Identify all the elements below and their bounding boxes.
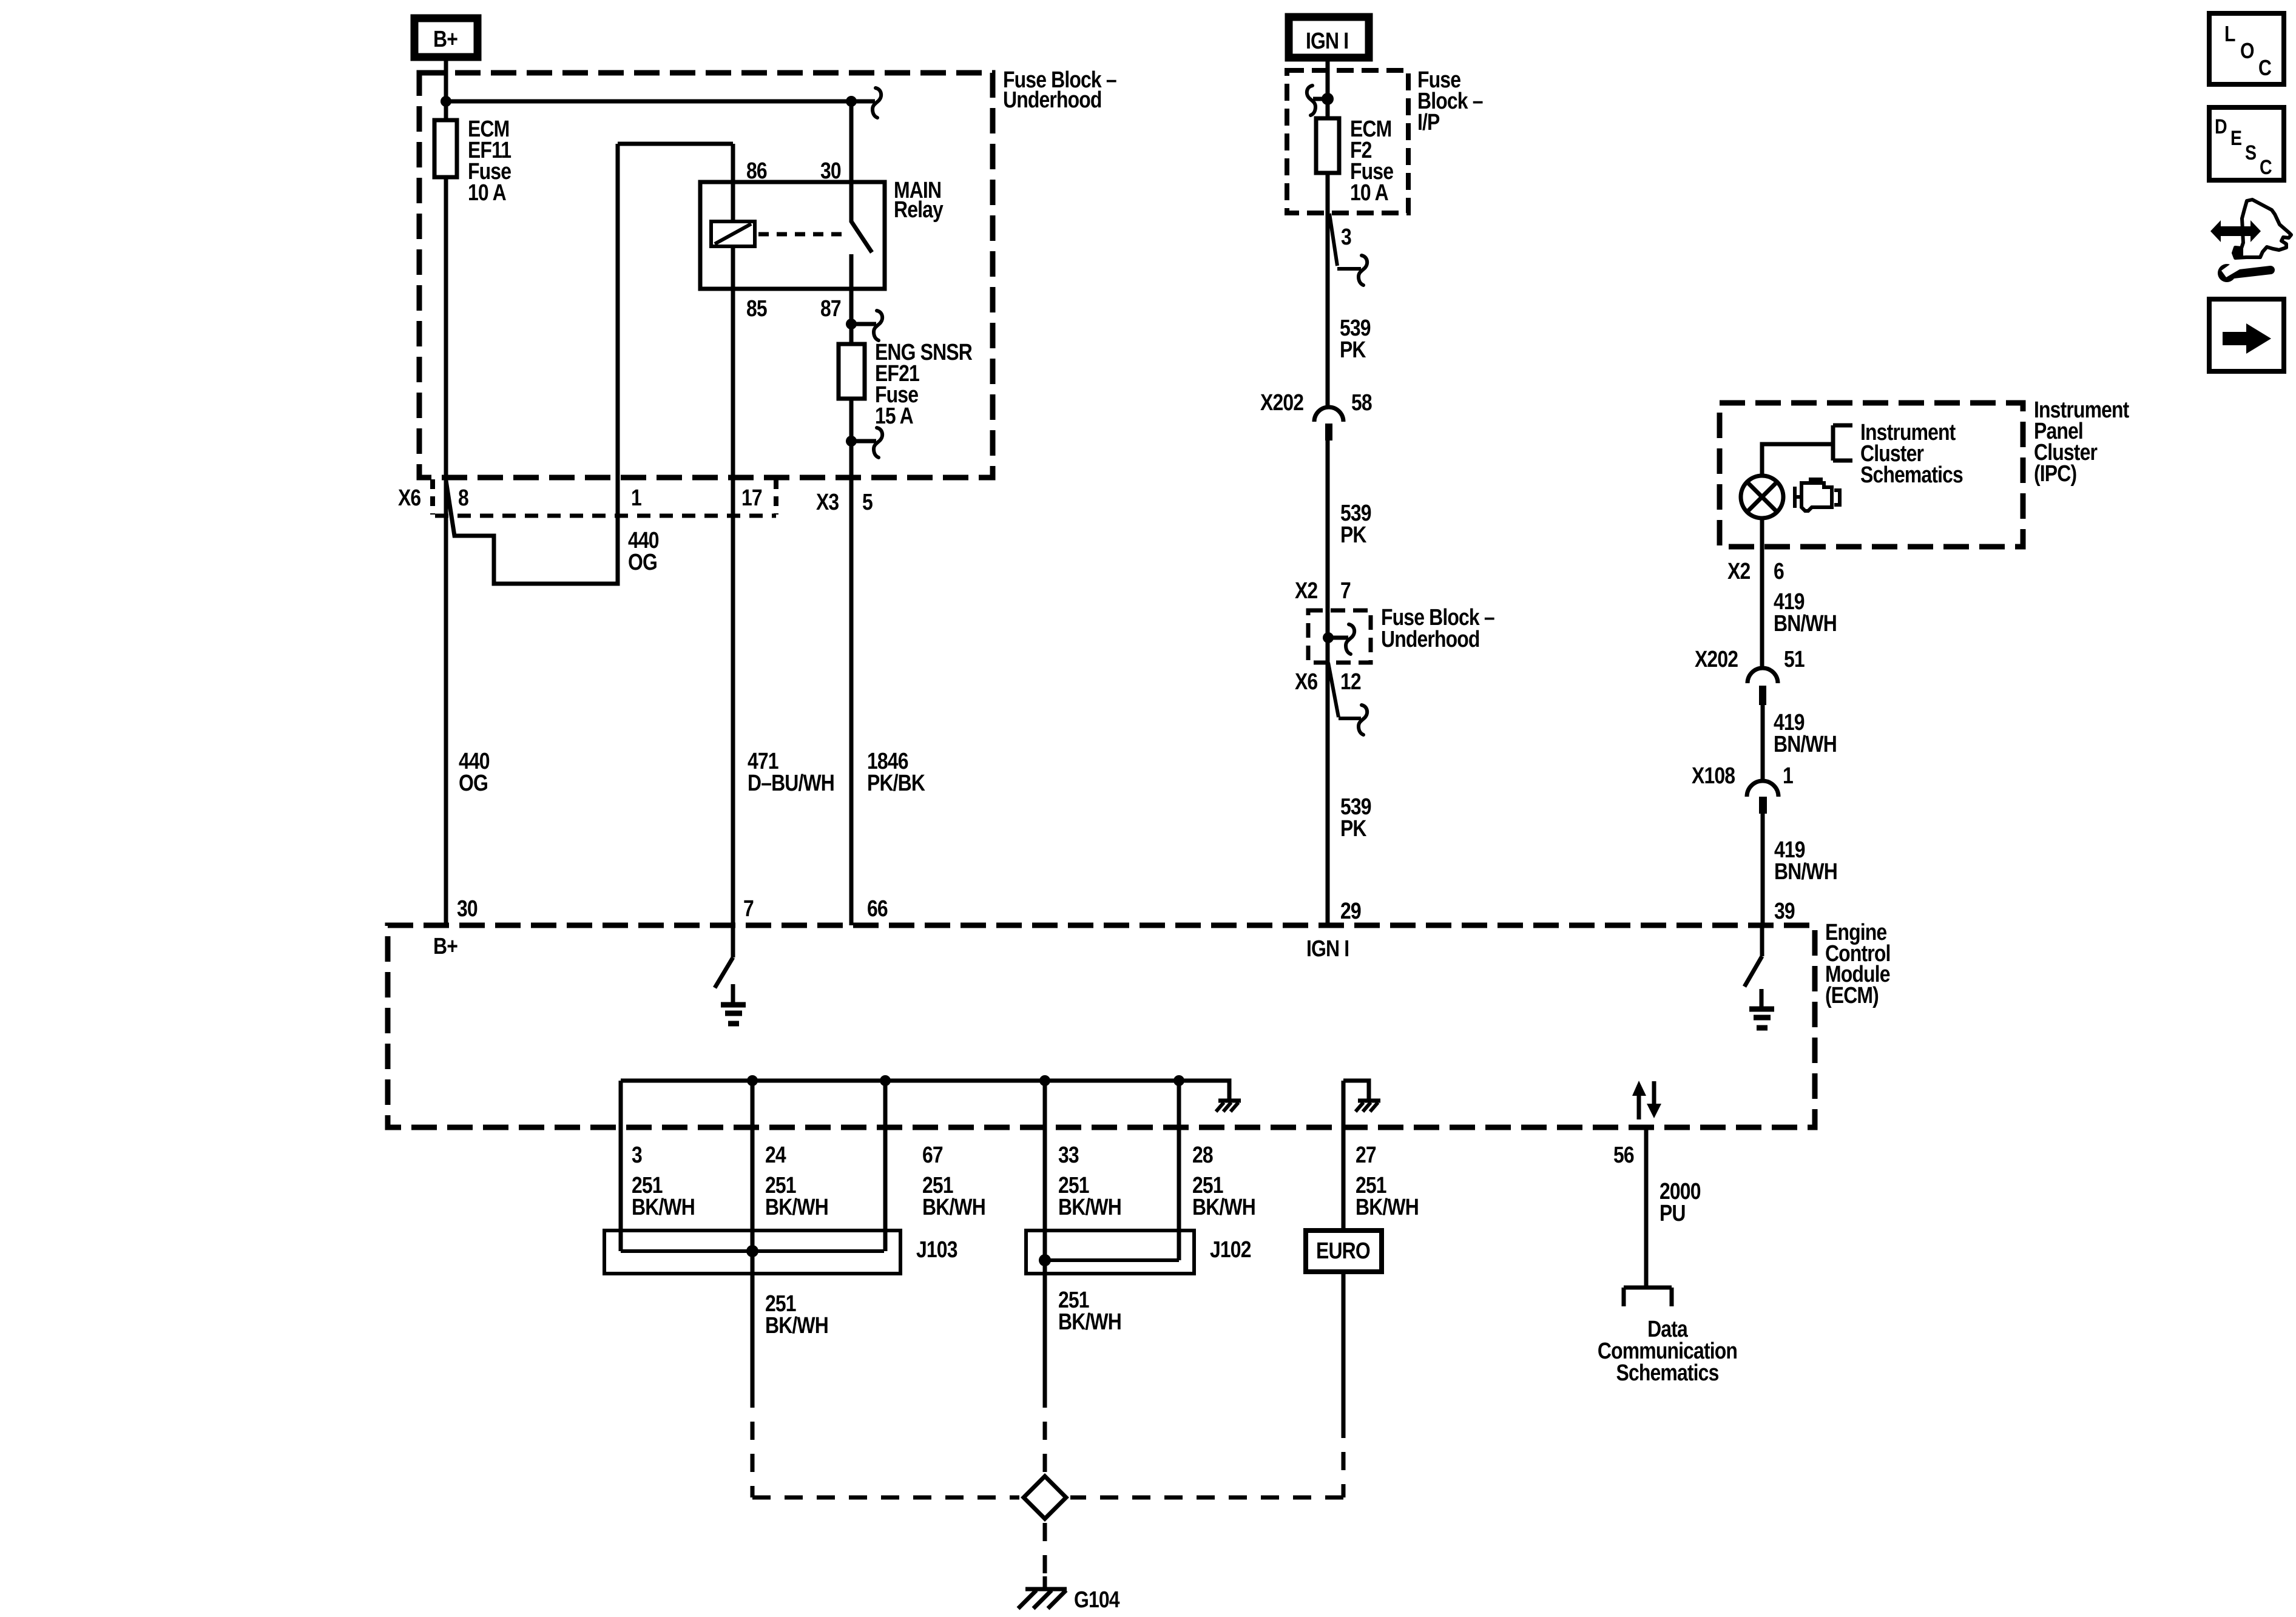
svg-text:10 A: 10 A bbox=[1350, 180, 1388, 205]
svg-text:IGN I: IGN I bbox=[1306, 936, 1349, 961]
svg-text:86: 86 bbox=[746, 158, 767, 183]
svg-text:X202: X202 bbox=[1260, 390, 1304, 415]
svg-text:X202: X202 bbox=[1695, 646, 1738, 672]
svg-text:Schematics: Schematics bbox=[1860, 462, 1963, 487]
svg-text:OG: OG bbox=[628, 549, 657, 575]
svg-text:12: 12 bbox=[1340, 669, 1361, 694]
svg-text:C: C bbox=[2258, 56, 2272, 81]
svg-text:B+: B+ bbox=[433, 933, 458, 959]
svg-text:X3: X3 bbox=[816, 489, 839, 515]
svg-text:X2: X2 bbox=[1295, 578, 1318, 603]
svg-text:PK/BK: PK/BK bbox=[867, 770, 925, 795]
svg-text:51: 51 bbox=[1784, 646, 1805, 672]
svg-text:E: E bbox=[2230, 127, 2241, 150]
svg-text:24: 24 bbox=[765, 1142, 786, 1167]
svg-text:X2: X2 bbox=[1727, 558, 1751, 584]
svg-text:87: 87 bbox=[820, 295, 841, 321]
svg-text:BK/WH: BK/WH bbox=[765, 1194, 828, 1220]
svg-text:BK/WH: BK/WH bbox=[1058, 1194, 1121, 1220]
svg-text:BN/WH: BN/WH bbox=[1774, 731, 1837, 757]
svg-text:Underhood: Underhood bbox=[1003, 87, 1102, 112]
svg-text:X6: X6 bbox=[1295, 669, 1318, 694]
svg-text:PK: PK bbox=[1340, 337, 1366, 362]
svg-text:X108: X108 bbox=[1692, 763, 1735, 788]
svg-text:3: 3 bbox=[632, 1142, 642, 1167]
svg-text:Schematics: Schematics bbox=[1616, 1360, 1719, 1385]
svg-text:BK/WH: BK/WH bbox=[1192, 1194, 1255, 1220]
svg-text:O: O bbox=[2240, 39, 2254, 64]
svg-text:66: 66 bbox=[867, 896, 888, 921]
svg-text:1: 1 bbox=[1783, 763, 1793, 788]
svg-text:BK/WH: BK/WH bbox=[632, 1194, 695, 1220]
svg-text:3: 3 bbox=[1341, 224, 1351, 249]
svg-text:IGN I: IGN I bbox=[1306, 28, 1348, 53]
svg-text:D: D bbox=[2215, 115, 2227, 138]
svg-text:30: 30 bbox=[820, 158, 841, 183]
svg-text:OG: OG bbox=[459, 770, 488, 795]
svg-text:5: 5 bbox=[862, 489, 873, 515]
svg-text:BK/WH: BK/WH bbox=[922, 1194, 985, 1220]
svg-text:B+: B+ bbox=[433, 26, 458, 52]
svg-text:X6: X6 bbox=[398, 485, 421, 510]
svg-text:L: L bbox=[2224, 22, 2235, 47]
svg-text:D–BU/WH: D–BU/WH bbox=[748, 770, 834, 795]
svg-text:(IPC): (IPC) bbox=[2034, 461, 2076, 486]
svg-text:BK/WH: BK/WH bbox=[1058, 1309, 1121, 1334]
svg-text:BK/WH: BK/WH bbox=[765, 1312, 828, 1338]
svg-text:29: 29 bbox=[1340, 898, 1361, 923]
svg-text:J103: J103 bbox=[916, 1237, 957, 1262]
svg-text:Relay: Relay bbox=[894, 197, 944, 222]
svg-text:BN/WH: BN/WH bbox=[1774, 859, 1837, 884]
svg-text:PU: PU bbox=[1660, 1200, 1686, 1226]
svg-text:I/P: I/P bbox=[1417, 109, 1440, 135]
svg-text:PK: PK bbox=[1340, 522, 1366, 547]
svg-text:S: S bbox=[2245, 141, 2256, 164]
svg-text:7: 7 bbox=[743, 896, 754, 921]
svg-text:27: 27 bbox=[1356, 1142, 1376, 1167]
svg-text:1: 1 bbox=[631, 485, 641, 510]
svg-text:EURO: EURO bbox=[1316, 1238, 1370, 1263]
svg-text:17: 17 bbox=[741, 485, 762, 510]
svg-text:85: 85 bbox=[746, 295, 767, 321]
svg-text:J102: J102 bbox=[1210, 1237, 1251, 1262]
svg-text:G104: G104 bbox=[1074, 1587, 1120, 1612]
svg-text:7: 7 bbox=[1340, 578, 1351, 603]
svg-text:67: 67 bbox=[922, 1142, 943, 1167]
svg-text:Underhood: Underhood bbox=[1381, 626, 1480, 652]
svg-text:39: 39 bbox=[1774, 898, 1795, 923]
svg-text:58: 58 bbox=[1351, 390, 1372, 415]
svg-text:8: 8 bbox=[458, 485, 468, 510]
svg-text:56: 56 bbox=[1613, 1142, 1634, 1167]
svg-text:BN/WH: BN/WH bbox=[1774, 610, 1837, 636]
svg-text:30: 30 bbox=[457, 896, 478, 921]
svg-text:BK/WH: BK/WH bbox=[1356, 1194, 1419, 1220]
svg-text:15 A: 15 A bbox=[875, 403, 913, 428]
svg-text:PK: PK bbox=[1340, 815, 1366, 841]
svg-text:C: C bbox=[2260, 156, 2272, 179]
svg-text:6: 6 bbox=[1774, 558, 1784, 584]
svg-text:(ECM): (ECM) bbox=[1825, 982, 1879, 1008]
svg-text:33: 33 bbox=[1058, 1142, 1079, 1167]
svg-text:28: 28 bbox=[1192, 1142, 1213, 1167]
svg-text:10 A: 10 A bbox=[468, 180, 506, 205]
